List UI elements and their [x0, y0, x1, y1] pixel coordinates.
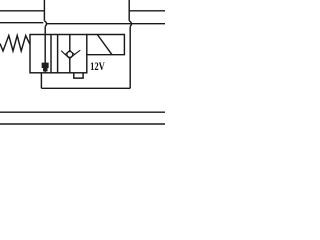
- diode D1 triangle body: [42, 63, 48, 71]
- wire rail 4: [0, 123, 165, 125]
- wire vertical drop V2 upper: [128, 0, 130, 21]
- valve symbol diamond: [65, 50, 74, 58]
- solenoid diagonal stroke: [97, 35, 112, 55]
- valve symbol bottom lead: [69, 58, 71, 72]
- connector bracket under box A: [74, 73, 83, 78]
- wire vertical drop V1 upper: [43, 0, 45, 21]
- wire rail 1 left segment: [0, 10, 45, 12]
- wire rail 3: [0, 111, 165, 113]
- component box A outline: [30, 35, 87, 73]
- wire bottom return riser to box: [40, 73, 42, 89]
- wire vertical drop V1 lower into box: [44, 26, 46, 63]
- wire hop of V1 over rail 2: [44, 21, 46, 27]
- box A internal divider 2: [57, 35, 59, 73]
- wire vertical drop V2 lower: [129, 26, 131, 88]
- valve symbol circle: [67, 52, 73, 58]
- box A internal divider 1: [50, 35, 52, 73]
- wire rail 2 right segment: [46, 23, 165, 25]
- wire hop of V2 over rail 2: [129, 21, 131, 27]
- valve symbol right wing: [74, 50, 80, 54]
- svg-text:12V: 12V: [90, 59, 105, 73]
- diode D1 bottom lead: [44, 68, 46, 73]
- wire bottom return horizontal: [41, 87, 130, 89]
- valve symbol top lead: [69, 35, 71, 51]
- wire rail 2 left segment: [0, 22, 43, 24]
- resistor zigzag: [0, 36, 30, 52]
- valve symbol left wing: [61, 51, 65, 55]
- component box B (solenoid) outline: [87, 35, 125, 55]
- wire rail 1 right segment: [129, 10, 165, 12]
